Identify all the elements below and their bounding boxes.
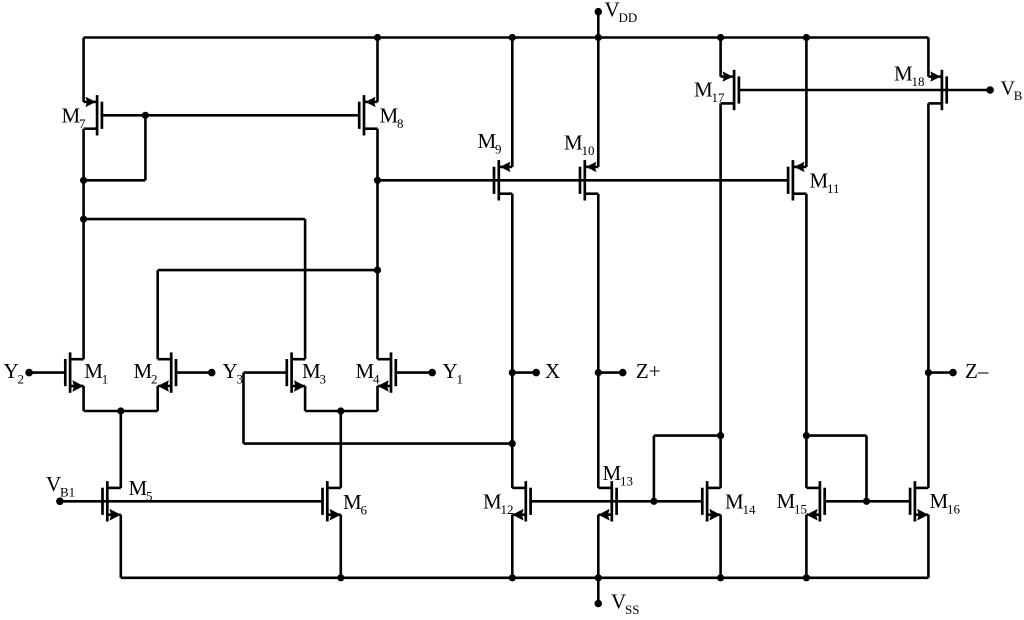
wire M10 drain / Z+ node column: [597, 194, 600, 488]
transistor M18 (PMOS): [894, 62, 947, 111]
junction VSS rail / M13 source: [595, 574, 602, 581]
wire gate M15 M16: [825, 500, 910, 503]
transistor M5 (NMOS): [103, 476, 153, 522]
wire tail1 to M5 drain: [120, 411, 123, 488]
junction node A (M7 drain / M3 drain link): [80, 216, 87, 223]
transistor M14 (NMOS): [702, 481, 756, 521]
junction VSS rail / M6 source: [337, 574, 344, 581]
wire gate rail M9 M10 M11: [378, 179, 789, 182]
wire diode link M7 gate-drain: [84, 115, 146, 180]
node VDD terminal: [595, 0, 638, 38]
junction M15 drain / gate link: [803, 432, 810, 439]
junction gate wire / M15 diode link: [863, 498, 870, 505]
wire M1 source: [82, 386, 85, 411]
node VSS terminal: [595, 578, 640, 617]
wire M11 source from VDD rail: [805, 38, 808, 167]
transistor M2 (NMOS): [134, 352, 177, 392]
wire gate M17-M18 to VB: [739, 89, 990, 92]
junction M8 drain / gate rail: [374, 177, 381, 184]
junction VSS rail / M15 source: [803, 574, 810, 581]
junction tail 2: [337, 407, 344, 414]
junction VSS rail / M12 source: [509, 574, 516, 581]
junction X node / M3 gate link: [509, 440, 516, 447]
junction tail 1: [117, 407, 124, 414]
junction VSS rail / M14 source: [717, 574, 724, 581]
junction Z+ node: [595, 369, 602, 376]
node VB1 terminal: [46, 472, 75, 505]
junction M7 drain / diode link: [80, 177, 87, 184]
wire M8 drain down to M4 drain: [376, 129, 379, 360]
transistor M15 (NMOS): [777, 481, 825, 521]
node Y2 terminal: [4, 359, 66, 387]
junction M7/M8 gate wire: [142, 112, 149, 119]
wire gate M7 to gate M8: [102, 114, 359, 117]
junction VDD rail / M17 source: [717, 34, 724, 41]
junction Z- node: [925, 369, 932, 376]
svg-text:Z–: Z–: [965, 359, 989, 383]
wire M14 diode link: [654, 436, 721, 502]
wire M15 source to VSS rail: [805, 515, 808, 578]
wire M15 diode link: [806, 436, 866, 502]
node Y3 terminal: [176, 359, 243, 387]
wire M18 drain / Z- node column: [927, 103, 930, 488]
junction X node: [509, 369, 516, 376]
wire M8 source from VDD rail: [376, 38, 379, 102]
power rail VDD (top): [84, 36, 929, 39]
junction M14 drain / gate link: [717, 432, 724, 439]
node Z- terminal: [928, 359, 988, 383]
transistor M9 (PMOS): [478, 129, 513, 201]
svg-text:X: X: [545, 359, 560, 383]
node Z+ terminal: [598, 359, 660, 383]
junction VDD rail / M8 source: [374, 34, 381, 41]
transistor M8 (PMOS): [359, 95, 403, 135]
wire tail2 to M6 drain: [339, 411, 342, 488]
wire M17 source from VDD rail: [719, 38, 722, 77]
wire node A to M3 drain: [84, 219, 306, 359]
wire M14 source to VSS rail: [719, 515, 722, 578]
transistor M7 (PMOS): [62, 95, 102, 135]
wire M5 source to VSS rail: [120, 515, 123, 578]
wire gate M12 M13 M14: [531, 500, 703, 503]
wire M2 source: [156, 386, 159, 411]
wire M7 drain down to M1 drain: [82, 129, 85, 360]
wire M9 drain / X node column: [511, 194, 514, 488]
wire M2 drain link: [158, 270, 378, 359]
transistor M3 (NMOS): [287, 352, 326, 392]
transistor M10 (PMOS): [564, 131, 598, 201]
junction gate wire / M14 diode link: [650, 498, 657, 505]
svg-text:Z+: Z+: [636, 359, 661, 383]
wire M13 source to VSS rail: [597, 515, 600, 578]
wire M16 source to VSS rail: [927, 515, 930, 578]
wire M7 source from VDD rail: [82, 38, 85, 102]
wire M4 source: [376, 386, 379, 411]
power rail VSS (bottom): [121, 576, 929, 579]
transistor M12 (NMOS): [483, 481, 531, 521]
wire M9 source from VDD rail: [511, 38, 514, 167]
wire M17 drain down to M14 drain: [719, 103, 722, 488]
junction VDD rail / M10 source: [595, 34, 602, 41]
transistor M11 (PMOS): [788, 160, 839, 200]
wire gate VB1 to M5 M6: [60, 500, 323, 503]
transistor M4 (NMOS): [356, 352, 396, 392]
wire M10 source from VDD junction: [597, 38, 600, 167]
junction VDD rail / M11 source: [803, 34, 810, 41]
wire tail pair M1-M2: [84, 410, 158, 413]
wire tail pair M3-M4: [305, 410, 377, 413]
junction VDD rail / M9 source: [509, 34, 516, 41]
wire M18 source from VDD rail corner: [927, 38, 930, 77]
wire M6 source to VSS rail: [339, 515, 342, 578]
node Y1 terminal: [396, 359, 463, 387]
node VB terminal: [986, 78, 1022, 104]
transistor M6 (NMOS): [323, 481, 368, 521]
transistor M17 (PMOS): [694, 70, 739, 110]
wire M3 source: [304, 386, 307, 411]
wire M11 drain down to M15 drain: [805, 194, 808, 488]
junction M8 drain / M2 drain link: [374, 267, 381, 274]
wire M12 source to VSS rail: [511, 515, 514, 578]
node X terminal: [512, 359, 560, 383]
transistor M13 (NMOS): [598, 461, 633, 522]
transistor M1 (NMOS): [65, 352, 108, 392]
wire M3 gate to X node: [244, 373, 513, 444]
transistor M16 (NMOS): [910, 481, 960, 521]
